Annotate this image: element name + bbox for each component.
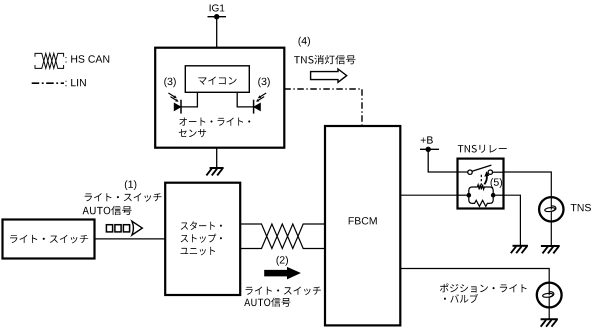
label (4) (298, 37, 310, 47)
wire light switch to start-stop unit (95, 238, 166, 240)
wire relay coil stubs (458, 194, 504, 196)
FBCM box (325, 126, 400, 325)
legend LIN dash-dot line (32, 82, 64, 84)
wire relay contact to TNS lamp (504, 172, 552, 197)
photodiode D2 (right) (254, 100, 261, 114)
label (1) (125, 180, 137, 190)
label ライト・スイッチ (in box) (10, 235, 88, 244)
label センサ (179, 129, 206, 137)
signal hollow arrowhead (132, 221, 142, 235)
auto-light sensor box (155, 48, 284, 148)
light arrows into D2 (256, 93, 266, 102)
wire FBCM to relay coil (400, 194, 457, 196)
label ライト・スイッチ (signal 2) (246, 287, 321, 296)
TNS off-signal hollow arrow (311, 69, 347, 82)
label オート・ライト・ (179, 118, 250, 126)
label (5) (491, 178, 503, 188)
HS CAN twisted pair wire B (240, 224, 325, 249)
position light bulb (537, 283, 562, 308)
label TNS消灯信号 (294, 55, 355, 64)
relay actuation link (481, 171, 489, 185)
relay coil node left (467, 193, 472, 198)
label ・バルブ (444, 294, 478, 303)
label TNSリレー (458, 145, 507, 153)
legend label LIN (66, 79, 86, 86)
light arrows into D1 (168, 93, 178, 102)
legend HS CAN twisted-pair symbol (35, 53, 64, 68)
legend label HS CAN (66, 55, 110, 62)
dash-dot wire sensor to FBCM (LIN) (284, 89, 362, 126)
ground (TNS lamp) (541, 246, 560, 253)
TNS relay box (458, 159, 504, 209)
ground (position light) (541, 319, 558, 326)
AUTO signal solid arrow (2) (264, 267, 301, 280)
wire FBCM to position light (400, 269, 549, 283)
label AUTO信号 (signal 1) (83, 206, 132, 215)
wire D2 to microcomputer (237, 92, 253, 107)
microcomputer box U1 (185, 66, 249, 93)
wire position light to ground (548, 307, 550, 319)
label FBCM (349, 217, 377, 224)
label TNS (571, 204, 591, 211)
power IG1 terminal (208, 14, 227, 19)
relay coil node right (491, 193, 496, 198)
label (2) (276, 256, 288, 266)
label ライト・スイッチ (signal 1) (85, 193, 162, 202)
label ユニット (181, 247, 215, 256)
HS CAN twisted pair wire A (240, 224, 325, 249)
wire TNS lamp to ground (550, 222, 552, 246)
wire D1 to microcomputer (181, 92, 197, 107)
power +B terminal (420, 147, 439, 152)
label マイコン (198, 77, 236, 85)
wire sensor to ground (216, 148, 218, 168)
photodiode D1 (left) (174, 100, 181, 114)
label ストップ・ (181, 234, 222, 243)
relay coil L1 with parallel resistor (469, 185, 493, 207)
label (3) right (258, 77, 270, 87)
light switch box (3, 220, 95, 259)
ground (sensor) (206, 168, 223, 175)
wire relay coil to ground (504, 195, 521, 246)
ground (relay coil) (511, 246, 528, 253)
label (3) left (164, 77, 176, 87)
power label +B (421, 136, 433, 143)
label AUTO信号 (signal 2) (244, 298, 290, 307)
signal squares (106, 225, 129, 232)
label スタート・ (181, 221, 222, 230)
relay contact SW1 (458, 165, 504, 174)
wire +B to relay contact (428, 149, 457, 172)
label ポジション・ライト (440, 283, 527, 292)
wire IG1 to sensor box (216, 17, 218, 48)
power label IG1 (210, 4, 225, 11)
start-stop unit box (165, 183, 240, 295)
TNS lamp (539, 197, 563, 221)
